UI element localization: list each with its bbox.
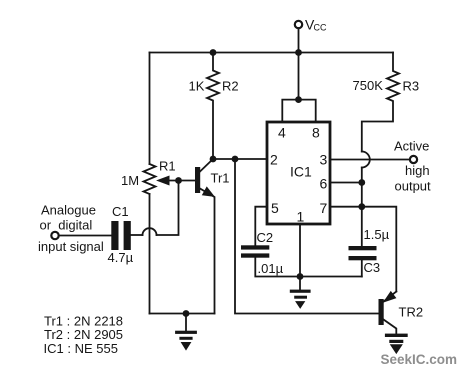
- wire hop over R1 branch (signal line): [143, 228, 157, 235]
- wire pin1 down: [299, 224, 301, 277]
- svg-text:input signal: input signal: [38, 239, 104, 254]
- svg-text:1M: 1M: [121, 173, 139, 188]
- svg-text:3: 3: [320, 152, 328, 168]
- label 1M: [121, 173, 139, 188]
- svg-text:5: 5: [271, 200, 279, 216]
- svg-text:TR2: TR2: [399, 305, 424, 320]
- label SeekIC.com watermark: [381, 352, 458, 367]
- resistor R3: [362, 53, 399, 152]
- svg-text:8: 8: [312, 125, 320, 141]
- svg-text:Active: Active: [394, 139, 429, 154]
- svg-text:4.7µ: 4.7µ: [108, 250, 134, 265]
- wire bracket to pins 4 and 8: [282, 100, 315, 122]
- wire left branch upper (top rail to R1): [149, 53, 151, 165]
- svg-text:R2: R2: [222, 79, 239, 94]
- wire input terminal to C1: [59, 235, 112, 237]
- wire C2 down to ground bus: [255, 258, 361, 277]
- wire TR2 collector to ground: [384, 320, 397, 334]
- svg-text:7: 7: [320, 200, 328, 216]
- wire Vcc down to IC bracket: [298, 28, 300, 100]
- capacitor C1: [111, 221, 118, 250]
- label TR2: [399, 305, 424, 320]
- ground symbol bottom rail: [185, 314, 187, 331]
- wire top horizontal rail: [150, 52, 394, 54]
- wire TR2 emitter diagonal: [384, 292, 397, 302]
- label 1.5u: [364, 227, 390, 242]
- label C1: [112, 204, 129, 219]
- wire right bus middle: [361, 168, 363, 247]
- transistor Q1 Tr1: [195, 167, 200, 193]
- arrow Tr1 emitter: [203, 187, 214, 196]
- wire pin5 to C2: [255, 207, 267, 246]
- svg-text:R3: R3: [403, 79, 420, 94]
- power Vcc terminal: [295, 21, 302, 28]
- svg-text:IC1: IC1: [290, 164, 312, 180]
- ground symbol pin1: [299, 277, 301, 290]
- label R1: [159, 159, 176, 174]
- node dot pin1 ground: [297, 273, 304, 280]
- svg-text:Tr1: Tr1: [211, 171, 230, 186]
- ground symbol TR2: [385, 334, 408, 337]
- node dot Vcc top rail: [295, 49, 302, 56]
- node wiper junction dot: [175, 177, 182, 184]
- label 750K: [353, 78, 384, 93]
- svg-text:1.5µ: 1.5µ: [364, 227, 390, 242]
- capacitor C3: [349, 246, 377, 250]
- wire C3 to ground bus: [361, 260, 363, 276]
- node dot pin7 junction: [358, 203, 365, 210]
- svg-text:or digital: or digital: [40, 218, 93, 233]
- svg-text:C3: C3: [364, 260, 381, 275]
- wire pin6: [330, 182, 362, 184]
- svg-text:750K: 750K: [353, 78, 384, 93]
- node dot collector junction: [210, 156, 217, 163]
- wire Tr1 emitter: [200, 189, 215, 314]
- node input terminal circle: [51, 232, 58, 239]
- svg-text:C2: C2: [257, 230, 274, 245]
- svg-text:output: output: [395, 179, 432, 194]
- resistor R1: [144, 164, 156, 194]
- svg-text:6: 6: [320, 176, 328, 192]
- node output terminal circle: [410, 156, 417, 163]
- svg-text:.01µ: .01µ: [258, 261, 284, 276]
- svg-text:2: 2: [270, 152, 278, 168]
- node dot bottom rail: [183, 310, 190, 317]
- wire Tr1 collector: [200, 159, 213, 172]
- svg-text:C1: C1: [112, 204, 129, 219]
- svg-text:Analogue: Analogue: [41, 203, 96, 218]
- label R2: [222, 79, 239, 94]
- node dot R2 top rail: [210, 49, 217, 56]
- wire hop right bus over pin3: [362, 152, 370, 168]
- svg-text:high: high: [405, 163, 430, 178]
- wire left branch lower (R1 to bottom rail): [149, 194, 151, 314]
- node dot bracket: [295, 96, 302, 103]
- wire pin7 junction to TR2 emitter: [362, 207, 397, 292]
- capacitor C2: [241, 245, 269, 249]
- svg-text:CC: CC: [314, 23, 327, 33]
- wire pin3 output line: [330, 159, 410, 161]
- svg-text:Tr2 : 2N 2905: Tr2 : 2N 2905: [44, 327, 123, 342]
- arrow TR2 emitter: [384, 292, 396, 302]
- svg-text:SeekIC.com: SeekIC.com: [381, 352, 458, 367]
- wire pin2 junction down to TR2 base: [235, 159, 379, 314]
- label 4.7u: [108, 250, 134, 265]
- label R3: [403, 79, 420, 94]
- wire wiper junction down to signal line: [157, 181, 179, 236]
- svg-text:1: 1: [297, 209, 305, 225]
- label 1K: [189, 79, 205, 94]
- label Active high output: [394, 139, 431, 194]
- wire C1 to hop: [131, 234, 143, 236]
- label Analogue or digital input signal: [38, 203, 104, 255]
- resistor R2: [207, 53, 219, 160]
- wire pin7: [330, 206, 362, 208]
- label Vcc: [305, 17, 327, 33]
- label Tr1: [211, 171, 230, 186]
- label IC1: [270, 125, 328, 225]
- svg-text:4: 4: [278, 125, 286, 141]
- wire pin2 line: [213, 158, 267, 160]
- node dot pin6 junction: [358, 179, 365, 186]
- label parts list: [44, 314, 124, 357]
- wire bottom ground rail: [150, 313, 215, 315]
- node dot base-line junction: [232, 156, 239, 163]
- svg-text:R1: R1: [159, 159, 176, 174]
- potentiometer wiper arrow of R1: [169, 180, 195, 182]
- transistor Q2 TR2: [379, 299, 384, 325]
- label .01u: [258, 261, 284, 276]
- label C2: [257, 230, 274, 245]
- svg-text:IC1 : NE 555: IC1 : NE 555: [44, 341, 118, 356]
- svg-text:1K: 1K: [189, 79, 205, 94]
- label C3: [364, 260, 381, 275]
- op-amp U1 IC1 555 box: [267, 122, 330, 224]
